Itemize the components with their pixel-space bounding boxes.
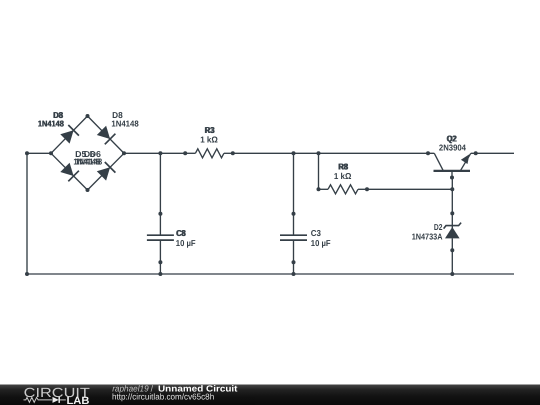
diode bridge outline — [51, 116, 124, 190]
wire R3 to Q2 collector — [233, 152, 434, 154]
CircuitLab logo mini-circuit (resistor, diode) — [24, 397, 66, 403]
terminal R8 pin 1 — [317, 187, 321, 191]
capacitor C3 — [280, 214, 307, 263]
wire top rail down to C3 — [293, 153, 295, 213]
terminal Q2 emitter — [474, 151, 478, 155]
wire C8 to bottom rail — [159, 262, 161, 274]
svg-text:10 µF: 10 µF — [176, 238, 196, 248]
terminal C3 pin 2 — [292, 260, 296, 264]
svg-text:1 kΩ: 1 kΩ — [334, 171, 352, 181]
svg-text:1 kΩ: 1 kΩ — [200, 135, 218, 145]
wire left-rail to bridge left vertex — [27, 152, 51, 154]
resistor R3 zigzag — [195, 149, 224, 158]
transistor Q2 2N3904 — [434, 153, 471, 177]
wire left rail vertical — [26, 153, 28, 274]
wire D2 anode to bottom rail — [451, 250, 453, 274]
junction top rail / R8 branch — [317, 151, 321, 155]
node bridge bottom vertex — [86, 188, 90, 192]
svg-text:http://circuitlab.com/cv65c8h: http://circuitlab.com/cv65c8h — [112, 391, 214, 401]
terminal Q2 collector — [426, 151, 430, 155]
wire bridge right vertex to R3 — [124, 152, 185, 154]
terminal Q2 base — [450, 176, 454, 180]
wire Q2 base down to D2 cathode — [451, 178, 453, 214]
node bridge top vertex — [86, 114, 90, 118]
diode D8 (bridge top-right) — [97, 126, 116, 145]
svg-text:1N4148: 1N4148 — [38, 118, 64, 128]
svg-text:C3: C3 — [311, 228, 321, 238]
wire top rail down to C8 — [159, 153, 161, 213]
svg-text:C8: C8 — [177, 228, 186, 238]
diode D5 (bridge bottom-left) — [60, 163, 79, 182]
svg-text:2N3904: 2N3904 — [439, 143, 466, 153]
terminal C8 pin 2 — [158, 260, 162, 264]
svg-text:1N4148: 1N4148 — [75, 156, 102, 166]
svg-text:1N4148: 1N4148 — [111, 118, 138, 128]
terminal D2 anode — [450, 248, 454, 252]
svg-text:10 µF: 10 µF — [311, 238, 331, 248]
junction bottom rail left corner — [25, 272, 29, 276]
junction bottom rail / C3 — [292, 272, 296, 276]
wire R8 to Q2 base node — [367, 188, 452, 190]
terminal R3 pin 1 — [183, 151, 187, 155]
terminal C3 pin 1 — [292, 212, 296, 216]
junction bottom rail / C8 — [158, 272, 162, 276]
wire top rail down to R8 — [318, 153, 320, 189]
terminal D2 cathode — [450, 211, 454, 215]
terminal R8 pin 2 — [365, 187, 369, 191]
junction base node / R8 wire — [450, 187, 454, 191]
diode D7 (bridge top-left) — [60, 125, 79, 144]
node bridge right vertex — [122, 151, 126, 155]
junction top rail / C8 branch — [158, 151, 162, 155]
capacitor C8 — [147, 214, 174, 263]
resistor R8 zigzag — [328, 185, 358, 194]
wire Q2 emitter stub — [471, 152, 514, 154]
wire R8 left lead — [319, 188, 329, 190]
zener diode D2 1N4733A — [444, 213, 462, 250]
junction top rail / C3 branch — [292, 151, 296, 155]
svg-text:R3: R3 — [205, 125, 215, 135]
wire C3 to bottom rail — [293, 262, 295, 274]
junction left rail / bridge feed — [25, 151, 29, 155]
wire R3 right lead — [224, 152, 233, 154]
node bridge left vertex — [49, 151, 53, 155]
wire R8 right lead — [358, 188, 367, 190]
wire bottom rail — [27, 273, 514, 275]
terminal C8 pin 1 — [158, 212, 162, 216]
terminal R3 pin 2 — [231, 151, 235, 155]
svg-text:1N4733A: 1N4733A — [412, 231, 443, 241]
svg-text:LAB: LAB — [67, 395, 90, 405]
diode D6 (bridge bottom-right) — [97, 162, 116, 181]
wire R3 left lead — [185, 152, 195, 154]
junction bottom rail / D2 — [450, 272, 454, 276]
